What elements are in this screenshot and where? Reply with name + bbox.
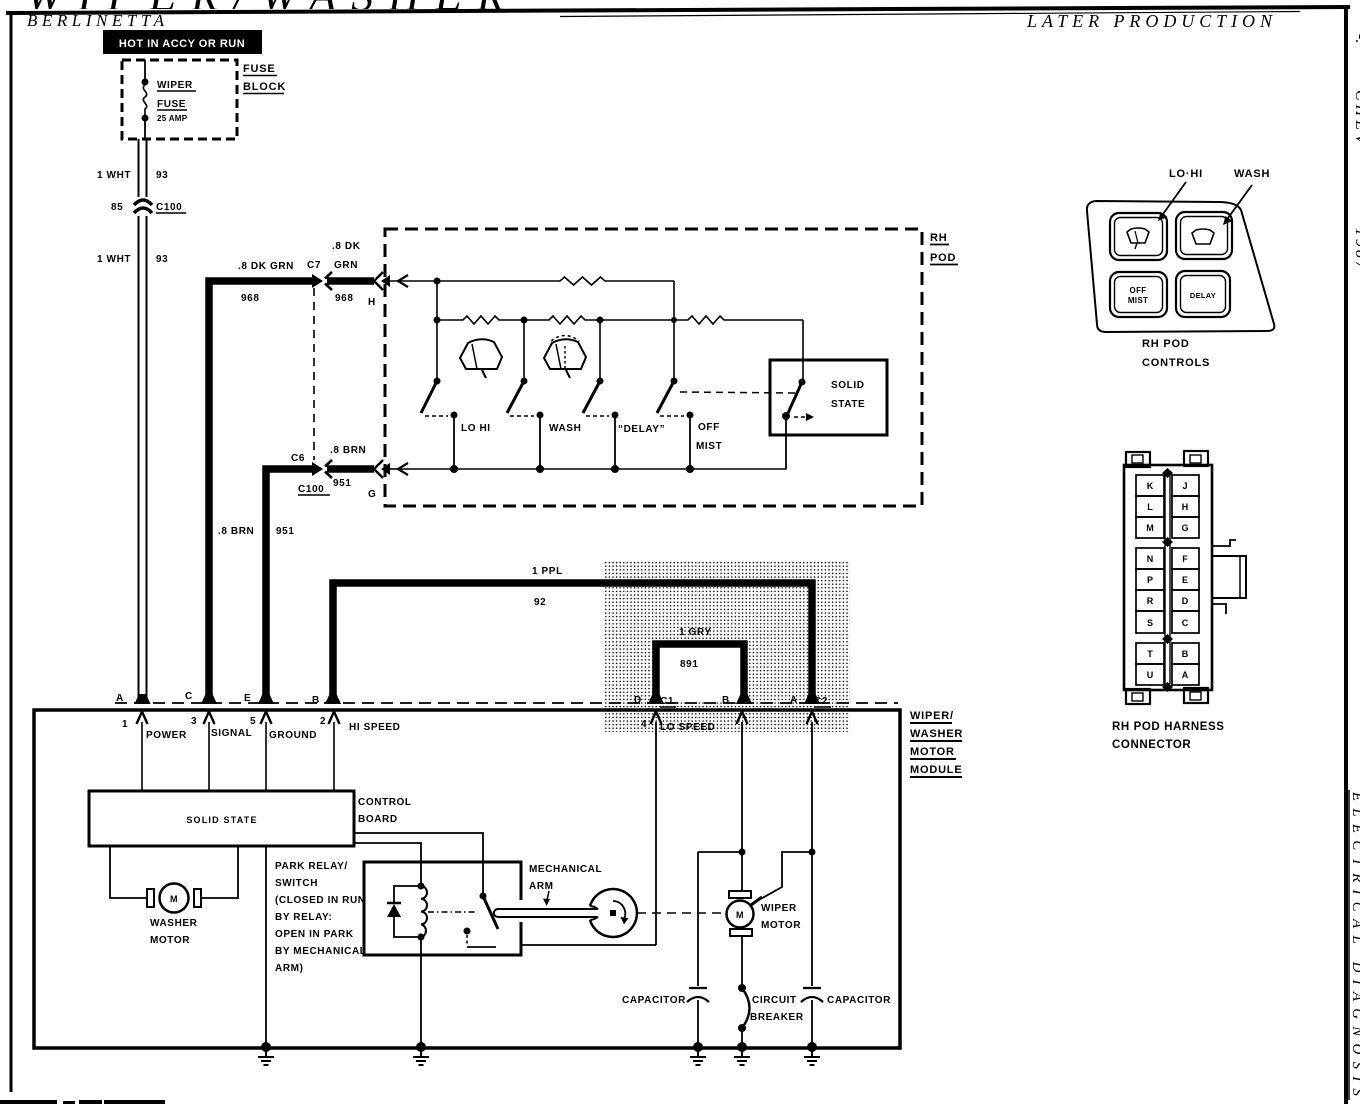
svg-text:ELECTRICAL DIAGNOSIS: ELECTRICAL DIAGNOSIS bbox=[1349, 791, 1360, 1097]
svg-text:ARM): ARM) bbox=[275, 963, 304, 974]
svg-text:5: 5 bbox=[250, 716, 256, 727]
svg-text:951: 951 bbox=[276, 526, 295, 537]
svg-text:25 AMP: 25 AMP bbox=[157, 114, 188, 123]
svg-text:BOARD: BOARD bbox=[358, 814, 398, 825]
svg-text:POWER: POWER bbox=[146, 730, 187, 741]
svg-text:4: 4 bbox=[641, 719, 647, 730]
svg-text:3: 3 bbox=[191, 716, 197, 727]
svg-text:OPEN IN PARK: OPEN IN PARK bbox=[275, 929, 354, 940]
svg-text:POD: POD bbox=[930, 252, 956, 264]
svg-text:SWITCH: SWITCH bbox=[275, 878, 318, 889]
svg-text:92: 92 bbox=[534, 597, 546, 608]
svg-text:OFF: OFF bbox=[1130, 286, 1147, 295]
svg-text:MOTOR: MOTOR bbox=[150, 935, 190, 946]
svg-text:C: C bbox=[1182, 618, 1189, 628]
svg-text:LATER PRODUCTION: LATER PRODUCTION bbox=[1026, 11, 1275, 31]
svg-text:CAPACITOR: CAPACITOR bbox=[622, 995, 686, 1006]
svg-text:C6: C6 bbox=[291, 453, 305, 464]
svg-text:CAPACITOR: CAPACITOR bbox=[827, 995, 891, 1006]
svg-text:K: K bbox=[1147, 481, 1154, 491]
svg-text:1 WHT: 1 WHT bbox=[97, 170, 131, 181]
svg-text:WIPER: WIPER bbox=[157, 80, 193, 91]
svg-text:CONTROLS: CONTROLS bbox=[1142, 357, 1210, 369]
svg-text:HOT IN ACCY OR RUN: HOT IN ACCY OR RUN bbox=[119, 38, 245, 50]
svg-text:RH: RH bbox=[930, 232, 948, 244]
svg-text:SOLID STATE: SOLID STATE bbox=[186, 815, 257, 825]
svg-text:G: G bbox=[1181, 523, 1188, 533]
svg-text:SIGNAL: SIGNAL bbox=[211, 728, 252, 739]
svg-text:ARM: ARM bbox=[529, 881, 554, 892]
svg-text:WASHER: WASHER bbox=[910, 728, 963, 740]
svg-text:F: F bbox=[1182, 554, 1188, 564]
svg-text:A: A bbox=[790, 695, 798, 706]
svg-text:.8 BRN: .8 BRN bbox=[330, 445, 366, 456]
svg-text:C100: C100 bbox=[298, 484, 324, 495]
svg-text:BY MECHANICAL: BY MECHANICAL bbox=[275, 946, 367, 957]
svg-text:LO HI: LO HI bbox=[461, 423, 491, 434]
svg-text:968: 968 bbox=[335, 293, 354, 304]
svg-text:D: D bbox=[1182, 596, 1189, 606]
svg-text:P: P bbox=[1147, 575, 1153, 585]
svg-text:H: H bbox=[1182, 502, 1189, 512]
svg-text:.8 DK GRN: .8 DK GRN bbox=[238, 261, 294, 272]
svg-text:CIRCUIT: CIRCUIT bbox=[752, 995, 797, 1006]
svg-text:G: G bbox=[368, 489, 376, 500]
svg-text:LO SPEED: LO SPEED bbox=[660, 722, 715, 733]
svg-text:M: M bbox=[170, 894, 178, 904]
svg-text:B: B bbox=[1182, 649, 1189, 659]
svg-text:T: T bbox=[1147, 649, 1153, 659]
svg-text:FUSE: FUSE bbox=[243, 63, 276, 75]
svg-text:HI SPEED: HI SPEED bbox=[349, 722, 400, 733]
svg-text:1: 1 bbox=[122, 719, 128, 730]
svg-text:BLOCK: BLOCK bbox=[243, 81, 286, 93]
svg-text:(CLOSED IN RUN: (CLOSED IN RUN bbox=[275, 895, 366, 906]
svg-text:FUSE: FUSE bbox=[157, 99, 186, 110]
svg-text:GRN: GRN bbox=[334, 260, 358, 271]
svg-text:C100: C100 bbox=[156, 202, 182, 213]
svg-text:E: E bbox=[1182, 575, 1188, 585]
svg-text:LO·HI: LO·HI bbox=[1169, 168, 1203, 180]
svg-text:2: 2 bbox=[320, 716, 326, 727]
svg-text:968: 968 bbox=[241, 293, 260, 304]
svg-text:BREAKER: BREAKER bbox=[750, 1012, 804, 1023]
svg-text:951: 951 bbox=[333, 478, 352, 489]
svg-text:WASH: WASH bbox=[1234, 168, 1270, 180]
svg-text:H: H bbox=[368, 297, 376, 308]
svg-text:E: E bbox=[244, 693, 251, 704]
svg-text:D: D bbox=[634, 695, 642, 706]
svg-text:L: L bbox=[1147, 502, 1153, 512]
svg-text:1987: 1987 bbox=[1352, 228, 1360, 272]
svg-text:OFF: OFF bbox=[698, 422, 720, 433]
svg-text:SOLID: SOLID bbox=[831, 380, 865, 391]
svg-text:WASHER: WASHER bbox=[150, 918, 198, 929]
svg-text:85: 85 bbox=[111, 202, 123, 213]
svg-text:MOTOR: MOTOR bbox=[761, 920, 801, 931]
svg-text:MIST: MIST bbox=[1128, 296, 1148, 305]
svg-text:-.: -. bbox=[1352, 34, 1360, 43]
svg-text:1 GRY: 1 GRY bbox=[679, 627, 712, 638]
svg-text:R: R bbox=[1147, 596, 1154, 606]
svg-text:WIPER/: WIPER/ bbox=[910, 710, 954, 722]
svg-text:WIPER: WIPER bbox=[761, 903, 797, 914]
svg-text:891: 891 bbox=[680, 659, 699, 670]
svg-text:.8 BRN: .8 BRN bbox=[218, 526, 254, 537]
svg-text:S: S bbox=[1147, 618, 1153, 628]
svg-text:M: M bbox=[1146, 523, 1154, 533]
svg-text:B: B bbox=[312, 695, 320, 706]
svg-text:1 PPL: 1 PPL bbox=[532, 566, 563, 577]
svg-text:A: A bbox=[116, 693, 124, 704]
svg-text:DELAY: DELAY bbox=[1190, 291, 1216, 300]
svg-text:A: A bbox=[1182, 670, 1189, 680]
svg-text:RH POD: RH POD bbox=[1142, 338, 1190, 350]
svg-text:MOTOR: MOTOR bbox=[910, 746, 955, 758]
svg-text:BERLINETTA: BERLINETTA bbox=[27, 11, 167, 30]
svg-text:B: B bbox=[722, 695, 730, 706]
svg-text:GROUND: GROUND bbox=[269, 730, 317, 741]
svg-text:U: U bbox=[1147, 670, 1154, 680]
svg-text:CONTROL: CONTROL bbox=[358, 797, 412, 808]
svg-text:MODULE: MODULE bbox=[910, 764, 962, 776]
svg-text:CONNECTOR: CONNECTOR bbox=[1112, 739, 1191, 751]
svg-text:CHEV: CHEV bbox=[1352, 90, 1360, 148]
svg-text:STATE: STATE bbox=[831, 399, 865, 410]
svg-text:.8 DK: .8 DK bbox=[332, 241, 361, 252]
svg-text:93: 93 bbox=[156, 170, 168, 181]
svg-text:“DELAY”: “DELAY” bbox=[618, 424, 665, 435]
svg-text:M: M bbox=[736, 910, 744, 920]
svg-text:C7: C7 bbox=[307, 260, 321, 271]
svg-text:RH POD HARNESS: RH POD HARNESS bbox=[1112, 721, 1225, 733]
svg-text:PARK RELAY/: PARK RELAY/ bbox=[275, 861, 348, 872]
svg-text:WASH: WASH bbox=[549, 423, 581, 434]
svg-text:MECHANICAL: MECHANICAL bbox=[529, 864, 602, 875]
svg-text:N: N bbox=[1147, 554, 1154, 564]
svg-text:BY RELAY:: BY RELAY: bbox=[275, 912, 332, 923]
svg-text:C: C bbox=[185, 691, 193, 702]
svg-text:MIST: MIST bbox=[696, 441, 722, 452]
svg-text:93: 93 bbox=[156, 254, 168, 265]
svg-text:J: J bbox=[1182, 481, 1187, 491]
svg-text:1 WHT: 1 WHT bbox=[97, 254, 131, 265]
